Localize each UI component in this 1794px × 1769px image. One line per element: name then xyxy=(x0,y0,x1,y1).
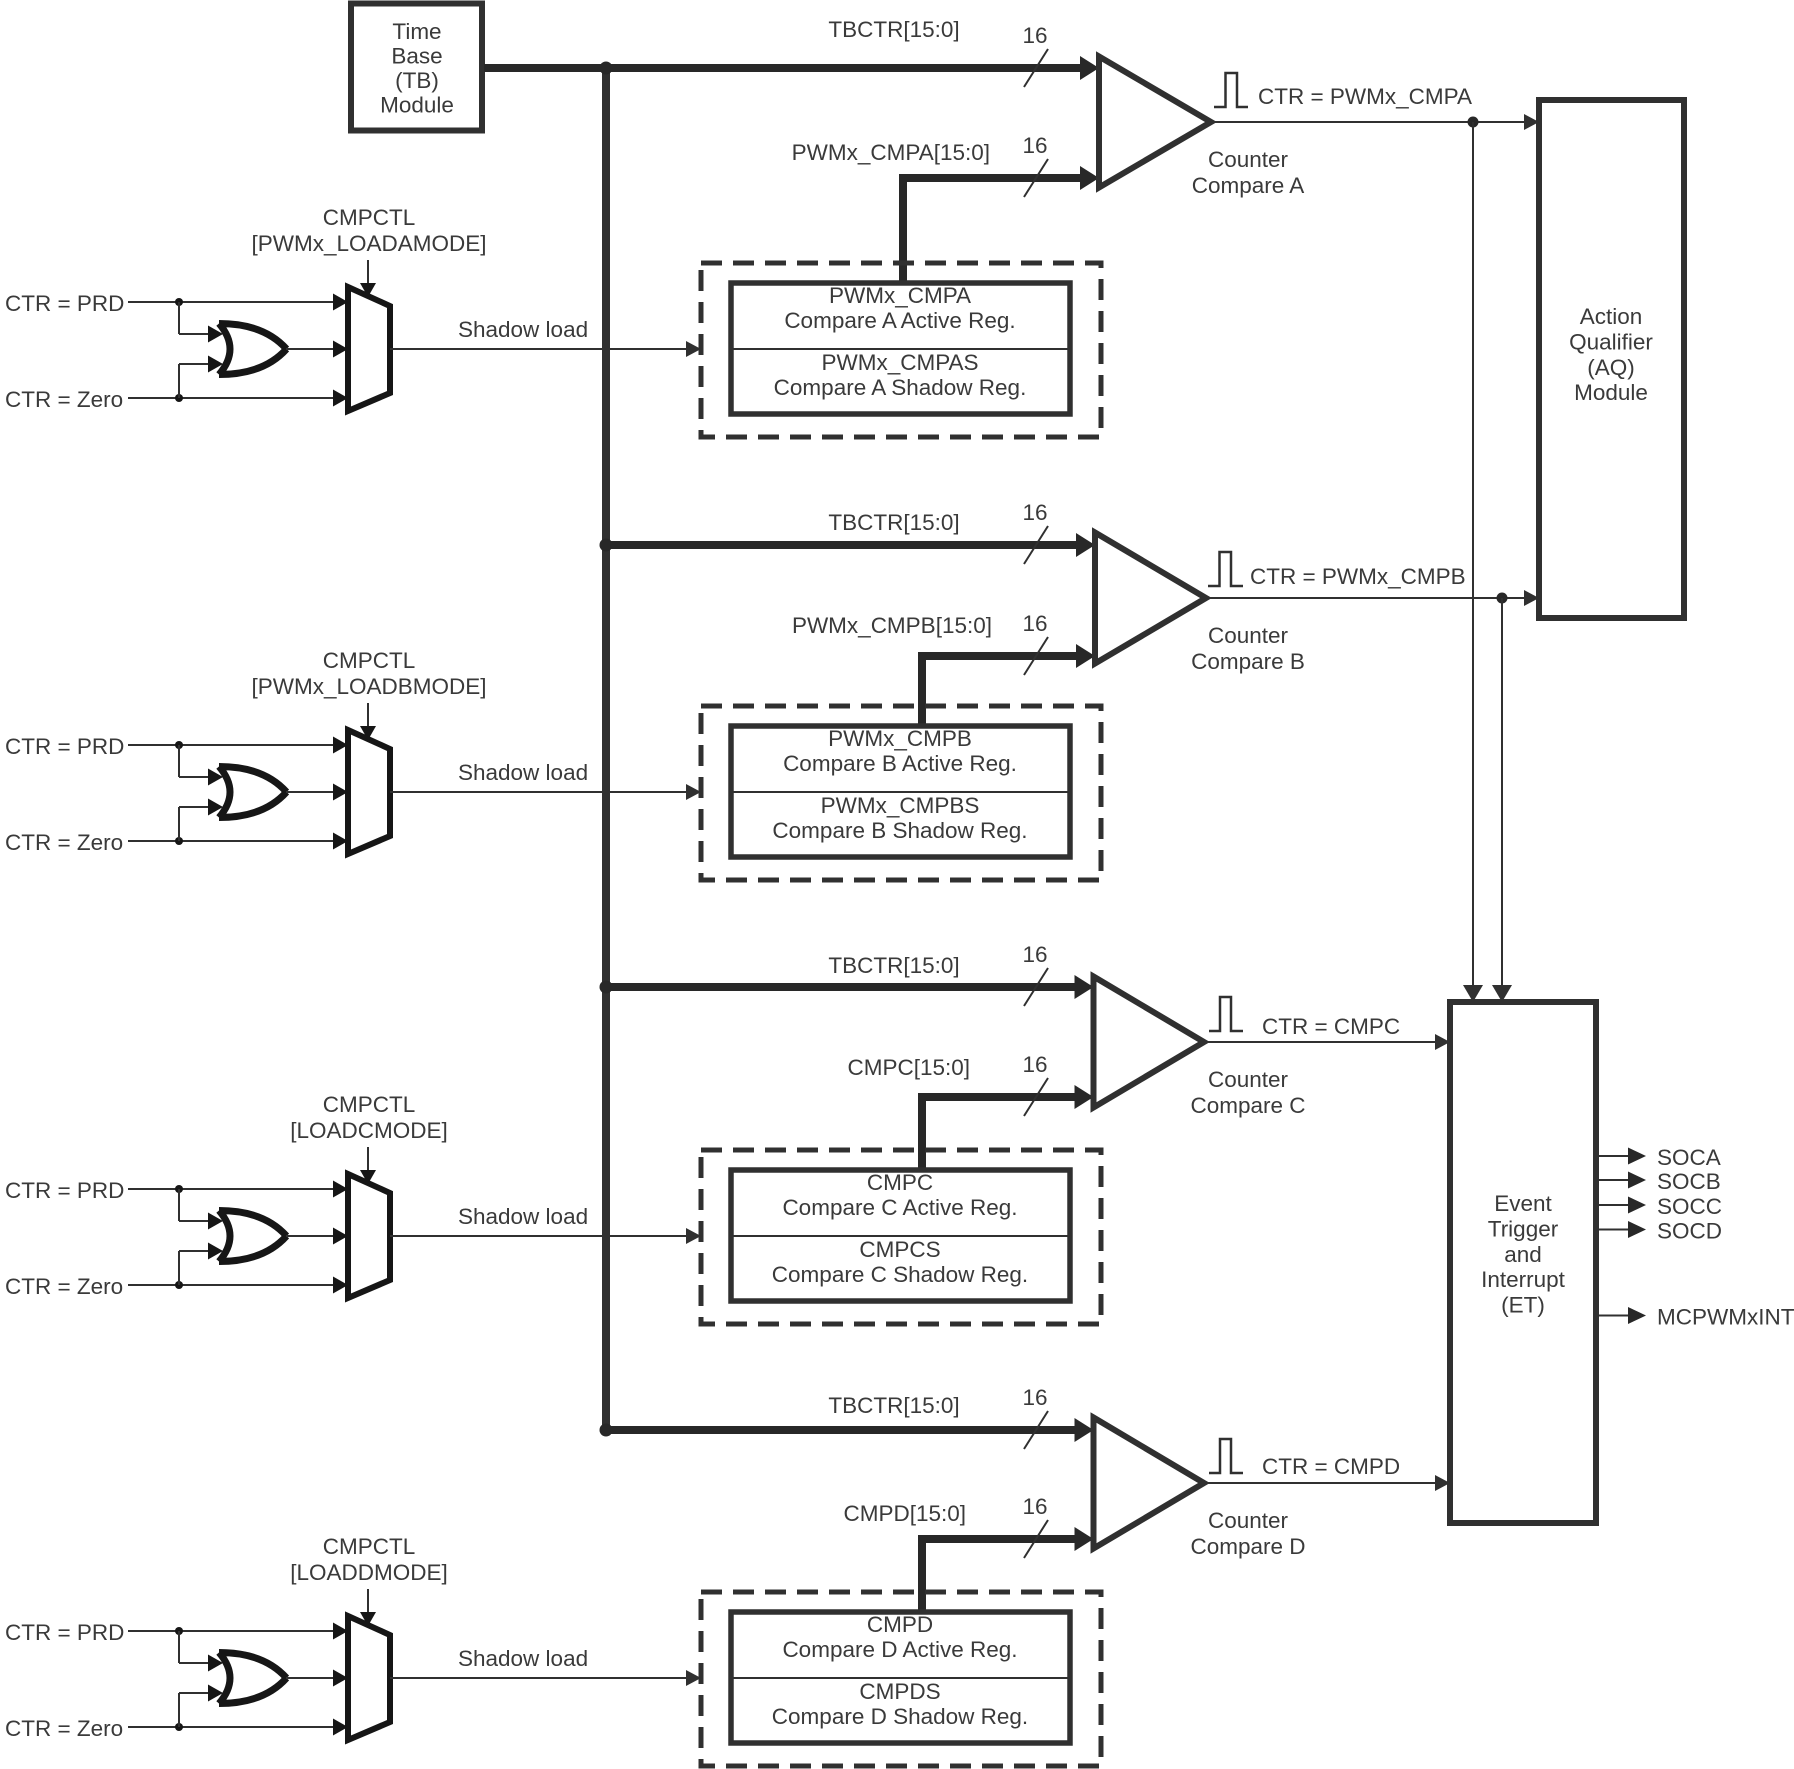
wire CMPD[15:0] to comparator D xyxy=(922,1527,1094,1615)
label CMPCTL [PWMx_LOADAMODE] row A xyxy=(251,205,486,256)
wire CMPCTL select into mux D xyxy=(360,1589,376,1626)
svg-text:Qualifier: Qualifier xyxy=(1569,329,1653,354)
wire Zero branch into OR gate C xyxy=(179,1243,223,1286)
register shadow boundary (dashed) row D xyxy=(701,1592,1101,1766)
svg-text:CTR = PRD: CTR = PRD xyxy=(5,1178,124,1203)
label CTR = PWMx_CMPA xyxy=(1258,84,1472,109)
svg-text:PWMx_CMPAS: PWMx_CMPAS xyxy=(821,350,978,375)
svg-text:CMPCTL: CMPCTL xyxy=(323,1534,416,1559)
register shadow boundary (dashed) row B xyxy=(701,706,1101,880)
block Time Base (TB) Module xyxy=(351,4,482,131)
register block PWMx_CMPB/PWMx_CMPBS row B xyxy=(731,726,1070,857)
wire PRD branch into OR gate A xyxy=(179,302,223,343)
svg-text:CMPD: CMPD xyxy=(867,1612,933,1637)
svg-text:Compare B: Compare B xyxy=(1191,649,1305,674)
bus width slash 16 on PWMx_CMPB[15:0] row B xyxy=(1022,611,1048,675)
svg-text:SOCA: SOCA xyxy=(1657,1145,1721,1170)
svg-text:(ET): (ET) xyxy=(1501,1293,1545,1318)
label CMPC[15:0] row C xyxy=(847,1055,970,1080)
label CTR = CMPC xyxy=(1262,1014,1400,1039)
junction node on bus at row A xyxy=(600,62,613,75)
block Event Trigger and Interrupt (ET) xyxy=(1450,1002,1596,1523)
svg-text:CTR = PWMx_CMPA: CTR = PWMx_CMPA xyxy=(1258,84,1472,109)
label CTR = CMPD xyxy=(1262,1454,1400,1479)
wire comparator A output to AQ xyxy=(1211,114,1539,130)
mux load-mode select row A xyxy=(348,287,390,411)
OR gate row D xyxy=(219,1653,287,1704)
label MCPWMxINT xyxy=(1657,1305,1794,1330)
junction node on bus at row C xyxy=(600,981,613,994)
junction node on bus at row B xyxy=(600,539,613,552)
label CTR = PRD row B xyxy=(5,734,124,759)
svg-text:Interrupt: Interrupt xyxy=(1481,1267,1566,1292)
block Action Qualifier (AQ) Module xyxy=(1539,100,1684,618)
svg-text:(AQ): (AQ) xyxy=(1587,355,1635,380)
junction node Zero row D xyxy=(175,1723,183,1731)
svg-text:Compare A Active Reg.: Compare A Active Reg. xyxy=(784,308,1015,333)
svg-text:Counter: Counter xyxy=(1208,147,1289,172)
svg-text:PWMx_CMPB[15:0]: PWMx_CMPB[15:0] xyxy=(792,613,992,638)
svg-text:PWMx_CMPB: PWMx_CMPB xyxy=(828,726,972,751)
svg-text:16: 16 xyxy=(1022,133,1047,158)
svg-text:CMPC[15:0]: CMPC[15:0] xyxy=(847,1055,970,1080)
label TBCTR[15:0] row C xyxy=(828,953,959,978)
label TBCTR[15:0] row A xyxy=(828,17,959,42)
comparator Counter Compare D xyxy=(1094,1418,1205,1549)
wire OR gate output to mux C xyxy=(286,1228,348,1245)
label TBCTR[15:0] row D xyxy=(828,1393,959,1418)
wire Zero branch into OR gate B xyxy=(179,799,223,842)
label Counter Compare B xyxy=(1191,623,1305,674)
wire OR gate output to mux A xyxy=(286,341,348,358)
svg-text:PWMx_CMPA: PWMx_CMPA xyxy=(829,283,971,308)
svg-text:[PWMx_LOADAMODE]: [PWMx_LOADAMODE] xyxy=(251,231,486,256)
bus width slash 16 on PWMx_CMPA[15:0] row A xyxy=(1022,133,1048,197)
svg-text:TBCTR[15:0]: TBCTR[15:0] xyxy=(828,17,959,42)
wire TBCTR[15:0] to comparator C xyxy=(606,975,1094,999)
wire CMPCTL select into mux A xyxy=(360,260,376,297)
svg-text:SOCC: SOCC xyxy=(1657,1194,1722,1219)
wire CTR = PRD to mux D xyxy=(128,1623,348,1640)
wire comparator D output to ET xyxy=(1204,1475,1450,1491)
svg-text:16: 16 xyxy=(1022,1494,1047,1519)
junction node PRD row A xyxy=(175,298,183,306)
svg-text:CTR = Zero: CTR = Zero xyxy=(5,830,123,855)
label Counter Compare D xyxy=(1190,1508,1305,1559)
pulse symbol at comparator C output xyxy=(1209,997,1243,1031)
wire CMPCTL select into mux C xyxy=(360,1147,376,1184)
register shadow boundary (dashed) row A xyxy=(701,263,1101,437)
junction node Zero row C xyxy=(175,1281,183,1289)
label SOCD xyxy=(1657,1219,1722,1244)
svg-text:Compare C: Compare C xyxy=(1190,1093,1305,1118)
svg-text:CMPCS: CMPCS xyxy=(859,1237,940,1262)
wire TBCTR[15:0] to comparator A xyxy=(484,56,1099,80)
svg-text:Shadow load: Shadow load xyxy=(458,1646,588,1671)
register block CMPC/CMPCS row C xyxy=(731,1170,1070,1301)
wire SOCB output xyxy=(1596,1172,1646,1189)
wire PWMx_CMPA[15:0] to comparator A xyxy=(903,166,1099,286)
label Shadow load row D xyxy=(458,1646,588,1671)
svg-text:Shadow load: Shadow load xyxy=(458,760,588,785)
register block PWMx_CMPA/PWMx_CMPAS row A xyxy=(731,283,1070,414)
label CMPD[15:0] row D xyxy=(843,1501,966,1526)
OR gate row B xyxy=(219,767,287,818)
wire PWMx_CMPB[15:0] to comparator B xyxy=(922,644,1095,729)
svg-text:and: and xyxy=(1504,1242,1542,1267)
mux load-mode select row C xyxy=(348,1174,390,1298)
svg-text:SOCB: SOCB xyxy=(1657,1169,1721,1194)
junction node A output xyxy=(1468,117,1479,128)
svg-text:Event: Event xyxy=(1494,1191,1552,1216)
label Counter Compare A xyxy=(1192,147,1305,198)
wire comparator A output down to ET xyxy=(1463,122,1483,1002)
svg-text:16: 16 xyxy=(1022,1052,1047,1077)
wire SOCA output xyxy=(1596,1148,1646,1165)
svg-text:Compare D Active Reg.: Compare D Active Reg. xyxy=(782,1637,1017,1662)
svg-text:CMPCTL: CMPCTL xyxy=(323,1092,416,1117)
label CMPCTL [PWMx_LOADBMODE] row B xyxy=(251,648,486,699)
wire CTR = PRD to mux C xyxy=(128,1181,348,1198)
svg-text:Time: Time xyxy=(392,19,441,44)
svg-text:PWMx_CMPA[15:0]: PWMx_CMPA[15:0] xyxy=(792,140,990,165)
label CTR = PRD row A xyxy=(5,291,124,316)
svg-text:Compare C Shadow Reg.: Compare C Shadow Reg. xyxy=(772,1262,1028,1287)
svg-text:CTR = PRD: CTR = PRD xyxy=(5,291,124,316)
junction node PRD row C xyxy=(175,1185,183,1193)
bus width slash 16 on CMPD[15:0] row D xyxy=(1022,1494,1048,1558)
svg-text:TBCTR[15:0]: TBCTR[15:0] xyxy=(828,1393,959,1418)
pulse symbol at comparator D output xyxy=(1209,1439,1243,1473)
svg-text:Trigger: Trigger xyxy=(1488,1216,1559,1241)
label CTR = Zero row D xyxy=(5,1716,123,1741)
wire OR gate output to mux B xyxy=(286,784,348,801)
bus width slash 16 on TBCTR row D xyxy=(1022,1385,1048,1449)
label PWMx_CMPA[15:0] row A xyxy=(792,140,990,165)
svg-text:CMPCTL: CMPCTL xyxy=(323,648,416,673)
wire PRD branch into OR gate D xyxy=(179,1631,223,1672)
svg-text:CMPCTL: CMPCTL xyxy=(323,205,416,230)
svg-text:CTR = Zero: CTR = Zero xyxy=(5,1716,123,1741)
svg-text:[PWMx_LOADBMODE]: [PWMx_LOADBMODE] xyxy=(251,674,486,699)
label TBCTR[15:0] row B xyxy=(828,510,959,535)
svg-text:16: 16 xyxy=(1022,942,1047,967)
label Shadow load row B xyxy=(458,760,588,785)
svg-text:Compare C Active Reg.: Compare C Active Reg. xyxy=(782,1195,1017,1220)
bus width slash 16 on TBCTR row B xyxy=(1022,500,1048,564)
wire Shadow load from mux D to register block xyxy=(390,1670,701,1686)
wire comparator B output down to ET xyxy=(1492,598,1512,1002)
svg-text:16: 16 xyxy=(1022,23,1047,48)
wire PRD branch into OR gate B xyxy=(179,745,223,786)
svg-text:Shadow load: Shadow load xyxy=(458,1204,588,1229)
svg-text:Counter: Counter xyxy=(1208,623,1289,648)
wire CTR = Zero to mux D xyxy=(128,1719,348,1736)
wire CMPCTL select into mux B xyxy=(360,703,376,740)
label Counter Compare C xyxy=(1190,1067,1305,1118)
comparator Counter Compare B xyxy=(1095,533,1206,664)
junction node PRD row D xyxy=(175,1627,183,1635)
svg-text:CMPC: CMPC xyxy=(867,1170,933,1195)
label Shadow load row C xyxy=(458,1204,588,1229)
svg-text:Action: Action xyxy=(1580,304,1643,329)
OR gate row C xyxy=(219,1211,287,1262)
svg-text:MCPWMxINT: MCPWMxINT xyxy=(1657,1305,1794,1330)
junction node Zero row A xyxy=(175,394,183,402)
junction node Zero row B xyxy=(175,837,183,845)
svg-text:TBCTR[15:0]: TBCTR[15:0] xyxy=(828,953,959,978)
svg-text:[LOADCMODE]: [LOADCMODE] xyxy=(290,1118,448,1143)
svg-text:PWMx_CMPBS: PWMx_CMPBS xyxy=(821,793,980,818)
svg-text:Compare A: Compare A xyxy=(1192,173,1305,198)
svg-text:(TB): (TB) xyxy=(395,68,439,93)
mux load-mode select row B xyxy=(348,730,390,854)
svg-text:CMPDS: CMPDS xyxy=(859,1679,940,1704)
label SOCB xyxy=(1657,1169,1721,1194)
junction node B output xyxy=(1497,593,1508,604)
svg-text:16: 16 xyxy=(1022,1385,1047,1410)
wire OR gate output to mux D xyxy=(286,1670,348,1687)
wire comparator C output to ET xyxy=(1204,1034,1450,1050)
OR gate row A xyxy=(219,324,287,375)
wire Shadow load from mux C to register block xyxy=(390,1228,701,1244)
wire TBCTR[15:0] to comparator D xyxy=(606,1418,1094,1442)
bus width slash 16 on TBCTR row A xyxy=(1022,23,1048,87)
wire CTR = Zero to mux C xyxy=(128,1277,348,1294)
svg-text:Module: Module xyxy=(1574,380,1648,405)
wire CTR = Zero to mux A xyxy=(128,390,348,407)
svg-text:SOCD: SOCD xyxy=(1657,1219,1722,1244)
register block CMPD/CMPDS row D xyxy=(731,1612,1070,1743)
wire PRD branch into OR gate C xyxy=(179,1189,223,1230)
label SOCC xyxy=(1657,1194,1722,1219)
label CTR = PRD row D xyxy=(5,1620,124,1645)
svg-text:CTR = CMPC: CTR = CMPC xyxy=(1262,1014,1400,1039)
svg-text:Base: Base xyxy=(391,43,442,68)
svg-text:CTR = CMPD: CTR = CMPD xyxy=(1262,1454,1400,1479)
svg-text:Compare D: Compare D xyxy=(1190,1534,1305,1559)
comparator Counter Compare C xyxy=(1094,977,1205,1108)
mux load-mode select row D xyxy=(348,1616,390,1740)
label CTR = PWMx_CMPB xyxy=(1250,564,1466,589)
wire Zero branch into OR gate D xyxy=(179,1685,223,1728)
junction node on bus at row D corner xyxy=(600,1424,613,1437)
comparator Counter Compare A xyxy=(1099,57,1211,188)
pulse symbol at comparator B output xyxy=(1208,552,1243,586)
svg-text:Counter: Counter xyxy=(1208,1508,1289,1533)
svg-text:Compare B Active Reg.: Compare B Active Reg. xyxy=(783,751,1017,776)
svg-text:Counter: Counter xyxy=(1208,1067,1289,1092)
label CTR = PRD row C xyxy=(5,1178,124,1203)
register shadow boundary (dashed) row C xyxy=(701,1150,1101,1324)
label CTR = Zero row B xyxy=(5,830,123,855)
wire CTR = PRD to mux A xyxy=(128,294,348,311)
svg-text:CTR = PRD: CTR = PRD xyxy=(5,734,124,759)
wire comparator B output to AQ xyxy=(1206,590,1539,606)
bus width slash 16 on CMPC[15:0] row C xyxy=(1022,1052,1048,1116)
wire CMPC[15:0] to comparator C xyxy=(922,1085,1094,1173)
wire MCPWMxINT output xyxy=(1596,1307,1646,1324)
svg-text:Module: Module xyxy=(380,93,454,118)
label CMPCTL [LOADDMODE] row D xyxy=(290,1534,448,1585)
svg-text:Compare A Shadow Reg.: Compare A Shadow Reg. xyxy=(774,375,1027,400)
svg-text:Shadow load: Shadow load xyxy=(458,317,588,342)
label CTR = Zero row A xyxy=(5,387,123,412)
svg-text:TBCTR[15:0]: TBCTR[15:0] xyxy=(828,510,959,535)
svg-text:CTR = Zero: CTR = Zero xyxy=(5,1274,123,1299)
svg-text:CTR = PWMx_CMPB: CTR = PWMx_CMPB xyxy=(1250,564,1466,589)
wire SOCD output xyxy=(1596,1221,1646,1238)
wire CTR = Zero to mux B xyxy=(128,833,348,850)
svg-text:Compare B Shadow Reg.: Compare B Shadow Reg. xyxy=(772,818,1027,843)
svg-text:16: 16 xyxy=(1022,500,1047,525)
label SOCA xyxy=(1657,1145,1721,1170)
wire Zero branch into OR gate A xyxy=(179,356,223,399)
svg-text:[LOADDMODE]: [LOADDMODE] xyxy=(290,1560,448,1585)
svg-text:16: 16 xyxy=(1022,611,1047,636)
wire Shadow load from mux B to register block xyxy=(390,784,701,800)
svg-text:CTR = PRD: CTR = PRD xyxy=(5,1620,124,1645)
label Shadow load row A xyxy=(458,317,588,342)
label CTR = Zero row C xyxy=(5,1274,123,1299)
junction node PRD row B xyxy=(175,741,183,749)
pulse symbol at comparator A output xyxy=(1214,73,1248,107)
wire TBCTR[15:0] to comparator B xyxy=(606,533,1095,557)
wire TBCTR bus vertical trunk xyxy=(602,68,610,1430)
label PWMx_CMPB[15:0] row B xyxy=(792,613,992,638)
wire CTR = PRD to mux B xyxy=(128,737,348,754)
svg-text:CTR = Zero: CTR = Zero xyxy=(5,387,123,412)
svg-text:Compare D Shadow Reg.: Compare D Shadow Reg. xyxy=(772,1704,1028,1729)
wire Shadow load from mux A to register block xyxy=(390,341,701,357)
label CMPCTL [LOADCMODE] row C xyxy=(290,1092,448,1143)
svg-text:CMPD[15:0]: CMPD[15:0] xyxy=(843,1501,966,1526)
wire SOCC output xyxy=(1596,1197,1646,1214)
bus width slash 16 on TBCTR row C xyxy=(1022,942,1048,1006)
